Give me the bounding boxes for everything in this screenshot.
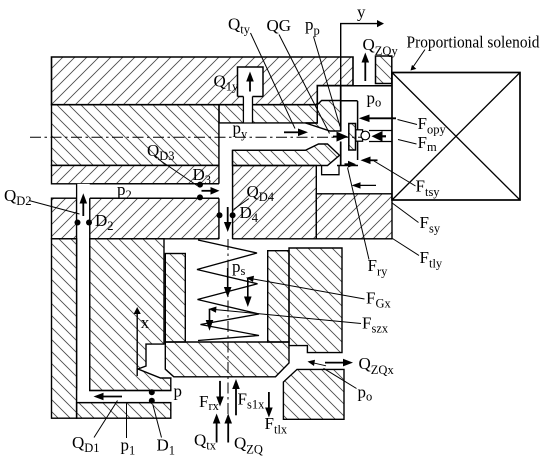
pp pointer	[314, 37, 341, 127]
Q1y port box	[238, 67, 264, 97]
y axis	[341, 3, 384, 87]
QZQ arrow	[224, 414, 232, 443]
armature pin channel lines	[369, 131, 392, 142]
lower nozzle piece	[233, 144, 340, 166]
Fm arrow	[372, 131, 387, 142]
Ftlx arrow	[265, 392, 273, 418]
py channel top/bottom walls	[219, 123, 317, 150]
x axis	[134, 307, 150, 376]
top housing bar	[52, 57, 354, 105]
py flow arrow	[284, 129, 308, 137]
Qtx arrow	[213, 414, 221, 443]
upper body band	[52, 105, 220, 166]
bottom plate	[77, 403, 171, 419]
D4 dots	[217, 212, 223, 218]
mid block R3	[90, 198, 219, 239]
svg-text:QG: QG	[267, 16, 292, 35]
ball end	[361, 131, 370, 140]
QD2 pointer	[29, 201, 80, 215]
spool bottom plate	[165, 342, 289, 377]
push pin	[356, 130, 363, 141]
QG pointer	[279, 35, 330, 134]
svg-text:y: y	[357, 3, 366, 22]
Fszx arrow	[206, 309, 214, 331]
solenoid pointer	[411, 50, 426, 71]
D2 dots	[75, 220, 81, 226]
left vertical channel	[77, 184, 90, 403]
Q1y stem	[243, 97, 252, 124]
svg-text:x: x	[141, 313, 150, 332]
housing line under QZQy port	[317, 85, 392, 87]
QD1 flow arrow	[94, 393, 123, 401]
inner left block	[90, 239, 171, 391]
QZQy arrow	[362, 53, 370, 82]
mid block R1 above p2	[52, 165, 220, 183]
D1 pointer	[153, 405, 162, 438]
Fsy pointer	[392, 203, 419, 223]
D3 flow arrow	[202, 187, 220, 195]
po chamber flow arrow	[352, 182, 377, 188]
Fopy arrow	[359, 115, 396, 123]
right outer block	[289, 248, 342, 353]
Fry arrow	[345, 161, 357, 168]
lower assembly: left column	[52, 239, 77, 418]
strip above py channel	[219, 105, 317, 123]
Ftsy arrow	[361, 157, 378, 165]
D2 flow arrow	[80, 193, 88, 216]
flapper	[349, 124, 356, 151]
p2 channel	[77, 184, 219, 198]
Ftly pointer	[393, 239, 420, 256]
FGx pointer	[246, 276, 365, 299]
vertical channel to D3 D4	[219, 123, 233, 240]
QZQx arrow	[325, 359, 353, 367]
Fry pointer	[348, 168, 370, 260]
solenoid box	[392, 73, 520, 201]
nozzle jet arrow	[333, 132, 348, 142]
QZQy block	[376, 56, 392, 84]
Fs1x arrow	[232, 379, 240, 415]
horizontal centerline	[30, 136, 362, 138]
mid block R2 left of channel	[52, 198, 77, 239]
po bottom pointer	[324, 368, 357, 388]
vertical centerline	[227, 239, 229, 418]
spool left wall	[165, 254, 185, 343]
svg-text:p: p	[174, 382, 183, 401]
Fszx pointer	[209, 307, 362, 324]
py channel	[219, 123, 341, 150]
QD4 pointer	[234, 199, 250, 210]
po pentagon block	[283, 369, 344, 419]
spring ps	[197, 240, 259, 341]
Ftsy pointer	[374, 161, 416, 186]
Fm pointer	[398, 140, 417, 145]
upper nozzle piece	[306, 101, 341, 132]
D4 flow arrow	[224, 207, 232, 232]
QD3 pointer	[158, 159, 197, 186]
D3 dots	[197, 182, 203, 188]
nozzle face plate vertical line	[340, 86, 342, 166]
QD1 pointer	[94, 401, 118, 438]
p1 pointer	[126, 404, 128, 439]
FGx arrow	[244, 278, 252, 307]
D1 dots	[149, 389, 155, 395]
spool right wall	[268, 251, 289, 342]
Frx arrow	[216, 381, 224, 407]
flapper chamber right wall	[337, 101, 358, 166]
mid block R5 below po chamber	[316, 194, 392, 239]
notch below nozzle	[322, 166, 339, 175]
Fopy pointer	[398, 120, 418, 125]
p1 channel	[77, 391, 171, 403]
mid block R4	[233, 166, 317, 239]
svg-text:Proportional solenoid: Proportional solenoid	[407, 33, 541, 52]
Qty pointer	[251, 33, 296, 129]
Q1y arrow	[246, 72, 254, 92]
QZQx back arrow	[308, 360, 327, 366]
spring force arrow center	[224, 268, 232, 298]
